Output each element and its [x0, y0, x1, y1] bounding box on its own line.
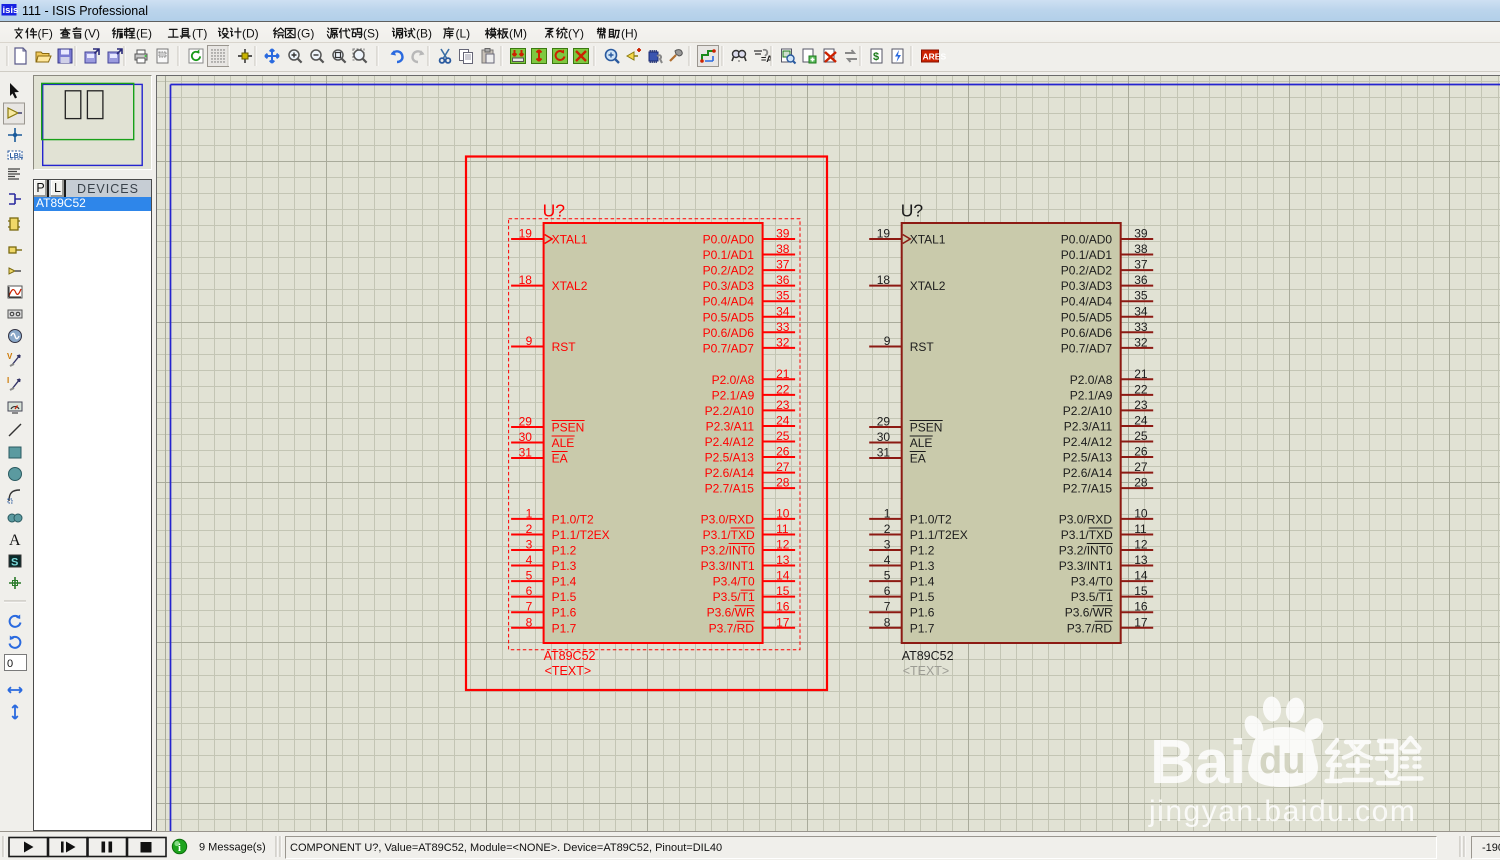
svg-text:P2.2/A10: P2.2/A10: [1063, 404, 1113, 418]
svg-text:36: 36: [776, 273, 790, 287]
svg-text:30: 30: [877, 430, 891, 444]
svg-text:P1.6: P1.6: [910, 606, 935, 620]
svg-text:39: 39: [776, 227, 790, 241]
svg-text:26: 26: [1134, 445, 1148, 459]
svg-text:P2.5/A13: P2.5/A13: [1063, 451, 1113, 465]
svg-text:17: 17: [776, 615, 790, 629]
svg-text:P3.4/T0: P3.4/T0: [713, 575, 755, 589]
svg-text:10: 10: [1134, 506, 1148, 520]
svg-text:16: 16: [776, 600, 790, 614]
svg-text:U?: U?: [543, 201, 566, 221]
svg-text:i: i: [178, 843, 181, 854]
svg-text:P1.0/T2: P1.0/T2: [552, 512, 594, 526]
svg-text:XTAL2: XTAL2: [910, 279, 946, 293]
svg-text:P3.7/RD: P3.7/RD: [709, 621, 755, 635]
svg-text:24: 24: [1134, 413, 1148, 427]
svg-text:P1.7: P1.7: [552, 621, 577, 635]
svg-text:P2.5/A13: P2.5/A13: [705, 451, 755, 465]
svg-text:P3.0/RXD: P3.0/RXD: [1059, 512, 1113, 526]
svg-text:28: 28: [776, 476, 790, 490]
svg-text:2: 2: [884, 522, 891, 536]
svg-text:P2.1/A9: P2.1/A9: [1070, 388, 1113, 402]
svg-text:P3.6/WR: P3.6/WR: [1065, 606, 1113, 620]
svg-text:P3.5/T1: P3.5/T1: [713, 590, 755, 604]
svg-text:25: 25: [1134, 429, 1148, 443]
svg-text:P0.6/AD6: P0.6/AD6: [1061, 326, 1113, 340]
svg-text:P0.0/AD0: P0.0/AD0: [1061, 233, 1113, 247]
svg-text:EA: EA: [552, 452, 568, 466]
svg-text:18: 18: [519, 273, 533, 287]
svg-text:P1.7: P1.7: [910, 621, 935, 635]
svg-text:P3.1/TXD: P3.1/TXD: [1061, 528, 1113, 542]
svg-text:P3.1/TXD: P3.1/TXD: [703, 528, 755, 542]
svg-text:XTAL1: XTAL1: [552, 233, 588, 247]
svg-text:P1.5: P1.5: [552, 590, 577, 604]
svg-text:Bai: Bai: [1150, 728, 1246, 797]
svg-text:19: 19: [519, 227, 533, 241]
svg-text:26: 26: [776, 445, 790, 459]
svg-text:15: 15: [776, 584, 790, 598]
svg-text:33: 33: [1134, 320, 1148, 334]
svg-text:21: 21: [1134, 367, 1148, 381]
svg-text:P0.0/AD0: P0.0/AD0: [703, 233, 755, 247]
svg-text:P1.5: P1.5: [910, 590, 935, 604]
svg-text:36: 36: [1134, 273, 1148, 287]
svg-text:P2.7/A15: P2.7/A15: [705, 482, 755, 496]
svg-text:P0.7/AD7: P0.7/AD7: [1061, 341, 1113, 355]
svg-text:1: 1: [884, 506, 891, 520]
svg-text:P1.2: P1.2: [910, 544, 935, 558]
svg-text:4: 4: [526, 553, 533, 567]
svg-text:P3.6/WR: P3.6/WR: [707, 606, 755, 620]
svg-text:P2.1/A9: P2.1/A9: [712, 388, 755, 402]
svg-text:jingyan.baidu.com: jingyan.baidu.com: [1148, 795, 1416, 828]
svg-text:P1.2: P1.2: [552, 544, 577, 558]
svg-text:28: 28: [1134, 476, 1148, 490]
svg-text:4: 4: [884, 553, 891, 567]
svg-text:37: 37: [776, 258, 790, 272]
svg-text:2: 2: [526, 522, 533, 536]
svg-text:7: 7: [526, 600, 533, 614]
svg-text:15: 15: [1134, 584, 1148, 598]
svg-text:27: 27: [776, 460, 790, 474]
svg-text:P2.6/A14: P2.6/A14: [705, 466, 755, 480]
svg-text:11: 11: [776, 522, 789, 536]
svg-text:11: 11: [1134, 522, 1147, 536]
svg-text:P0.3/AD3: P0.3/AD3: [703, 279, 755, 293]
svg-text:PSEN: PSEN: [552, 421, 585, 435]
svg-text:6: 6: [526, 584, 533, 598]
svg-text:23: 23: [1134, 398, 1148, 412]
svg-text:16: 16: [1134, 600, 1148, 614]
svg-text:RST: RST: [910, 340, 935, 354]
svg-text:P1.0/T2: P1.0/T2: [910, 512, 952, 526]
svg-text:P1.3: P1.3: [552, 559, 577, 573]
svg-text:12: 12: [776, 538, 790, 552]
svg-text:P3.0/RXD: P3.0/RXD: [701, 512, 755, 526]
svg-text:31: 31: [519, 446, 533, 460]
svg-text:37: 37: [1134, 258, 1148, 272]
svg-text:P1.1/T2EX: P1.1/T2EX: [552, 528, 610, 542]
svg-text:19: 19: [877, 227, 891, 241]
svg-text:25: 25: [776, 429, 790, 443]
svg-text:38: 38: [776, 242, 790, 256]
svg-text:21: 21: [776, 367, 790, 381]
svg-text:8: 8: [884, 615, 891, 629]
svg-text:7: 7: [884, 600, 891, 614]
svg-text:33: 33: [776, 320, 790, 334]
svg-text:P1.4: P1.4: [910, 575, 935, 589]
svg-text:23: 23: [776, 398, 790, 412]
svg-text:P1.1/T2EX: P1.1/T2EX: [910, 528, 968, 542]
svg-text:12: 12: [1134, 538, 1148, 552]
svg-text:17: 17: [1134, 615, 1148, 629]
svg-text:9 Message(s): 9 Message(s): [199, 842, 266, 854]
svg-text:P3.2/INT0: P3.2/INT0: [701, 544, 755, 558]
svg-text:22: 22: [776, 382, 790, 396]
svg-text:3: 3: [884, 538, 891, 552]
svg-text:5: 5: [884, 569, 891, 583]
svg-text:18: 18: [877, 273, 891, 287]
svg-text:6: 6: [884, 584, 891, 598]
svg-text:<TEXT>: <TEXT>: [545, 664, 592, 678]
svg-text:P0.1/AD1: P0.1/AD1: [703, 248, 755, 262]
svg-text:5: 5: [526, 569, 533, 583]
svg-text:3: 3: [526, 538, 533, 552]
svg-text:P0.3/AD3: P0.3/AD3: [1061, 279, 1113, 293]
svg-text:P3.5/T1: P3.5/T1: [1071, 590, 1113, 604]
svg-text:P0.5/AD5: P0.5/AD5: [1061, 310, 1113, 324]
svg-text:<TEXT>: <TEXT>: [903, 664, 950, 678]
svg-text:34: 34: [1134, 304, 1148, 318]
svg-text:P0.7/AD7: P0.7/AD7: [703, 341, 755, 355]
svg-text:P0.5/AD5: P0.5/AD5: [703, 310, 755, 324]
svg-text:AT89C52: AT89C52: [902, 649, 954, 663]
svg-text:P2.7/A15: P2.7/A15: [1063, 482, 1113, 496]
svg-text:P2.2/A10: P2.2/A10: [705, 404, 755, 418]
svg-text:39: 39: [1134, 227, 1148, 241]
svg-text:30: 30: [519, 430, 533, 444]
svg-text:32: 32: [1134, 335, 1148, 349]
svg-text:P0.4/AD4: P0.4/AD4: [703, 295, 755, 309]
svg-text:P2.0/A8: P2.0/A8: [712, 373, 755, 387]
svg-text:P2.4/A12: P2.4/A12: [705, 435, 755, 449]
svg-text:24: 24: [776, 413, 790, 427]
svg-text:P2.0/A8: P2.0/A8: [1070, 373, 1113, 387]
svg-text:14: 14: [1134, 569, 1148, 583]
svg-text:8: 8: [526, 615, 533, 629]
svg-text:27: 27: [1134, 460, 1148, 474]
svg-text:22: 22: [1134, 382, 1148, 396]
svg-text:P2.3/A11: P2.3/A11: [706, 419, 755, 433]
svg-text:10: 10: [776, 506, 790, 520]
svg-text:du: du: [1259, 740, 1305, 782]
svg-text:13: 13: [776, 553, 790, 567]
svg-text:P3.3/INT1: P3.3/INT1: [1059, 559, 1113, 573]
svg-text:P0.2/AD2: P0.2/AD2: [703, 264, 755, 278]
svg-text:38: 38: [1134, 242, 1148, 256]
svg-text:35: 35: [776, 289, 790, 303]
svg-text:PSEN: PSEN: [910, 421, 943, 435]
svg-text:EA: EA: [910, 452, 926, 466]
svg-text:XTAL1: XTAL1: [910, 233, 946, 247]
svg-text:P3.2/INT0: P3.2/INT0: [1059, 544, 1113, 558]
svg-text:U?: U?: [901, 201, 924, 221]
svg-text:ALE: ALE: [552, 436, 575, 450]
svg-text:P3.3/INT1: P3.3/INT1: [701, 559, 755, 573]
svg-text:P3.4/T0: P3.4/T0: [1071, 575, 1113, 589]
svg-text:1: 1: [526, 506, 533, 520]
svg-text:14: 14: [776, 569, 790, 583]
svg-text:P3.7/RD: P3.7/RD: [1067, 621, 1113, 635]
svg-text:9: 9: [884, 334, 891, 348]
svg-text:AT89C52: AT89C52: [544, 649, 596, 663]
svg-text:35: 35: [1134, 289, 1148, 303]
svg-text:P2.6/A14: P2.6/A14: [1063, 466, 1113, 480]
svg-text:P0.4/AD4: P0.4/AD4: [1061, 295, 1113, 309]
svg-text:32: 32: [776, 335, 790, 349]
svg-text:9: 9: [526, 334, 533, 348]
svg-text:RST: RST: [552, 340, 577, 354]
svg-text:P1.6: P1.6: [552, 606, 577, 620]
svg-text:34: 34: [776, 304, 790, 318]
svg-text:29: 29: [519, 415, 533, 429]
svg-text:P2.4/A12: P2.4/A12: [1063, 435, 1113, 449]
svg-text:29: 29: [877, 415, 891, 429]
svg-text:P2.3/A11: P2.3/A11: [1064, 419, 1113, 433]
svg-text:ALE: ALE: [910, 436, 933, 450]
svg-text:P0.6/AD6: P0.6/AD6: [703, 326, 755, 340]
svg-text:P1.3: P1.3: [910, 559, 935, 573]
svg-text:P0.2/AD2: P0.2/AD2: [1061, 264, 1113, 278]
svg-text:P1.4: P1.4: [552, 575, 577, 589]
svg-text:13: 13: [1134, 553, 1148, 567]
svg-text:31: 31: [877, 446, 891, 460]
svg-text:P0.1/AD1: P0.1/AD1: [1061, 248, 1113, 262]
svg-text:XTAL2: XTAL2: [552, 279, 588, 293]
